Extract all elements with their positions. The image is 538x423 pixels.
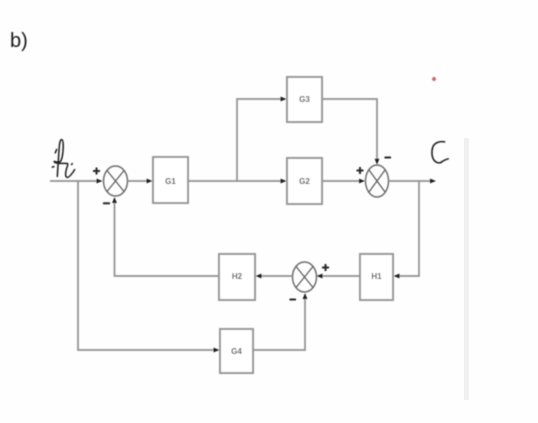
arrow into G2 [281,179,287,184]
wire: feedback takeoff down to H1 [397,181,419,276]
wire: G2 to S2 [322,180,362,182]
wire: takeoff from input down to G4 [78,181,217,350]
wire: G3 to S2 top [322,99,377,161]
arrow into H2 right side [256,274,262,279]
summing junction S3 [293,262,317,292]
wire: G1 to G2 with branch node [188,180,284,182]
handwritten output letter C [432,142,448,163]
svg-text:b): b) [10,30,28,52]
wire: G4 up to S3 bottom [253,296,305,350]
block H1 [360,254,393,300]
sign - at S3 bottom input [290,299,297,301]
arrow into S2 from top [375,159,380,165]
output arrowhead [430,179,436,184]
wire: H1 to S3 [320,275,360,277]
summing junction S2 [366,165,389,197]
sign - at S1 feedback [103,202,110,204]
sign + at S1 input [93,168,100,175]
sign + at S3 input [322,264,329,271]
arrow into S2 from left [359,179,365,184]
arrow into G4 [214,348,220,353]
block H2 [219,254,255,300]
svg-text:G3: G3 [299,95,310,104]
wire: branch up to G3 [237,99,281,181]
svg-text:G2: G2 [299,177,310,186]
svg-text:H2: H2 [232,272,243,281]
red dot mark [432,77,436,81]
arrow into H1 right side [394,274,400,279]
svg-text:G4: G4 [231,347,242,356]
arrow into S3 from below [303,293,308,299]
arrow into G3 [281,97,287,102]
handwritten input letter R [52,140,74,178]
block G2 [287,158,322,204]
arrow into G1 [147,179,153,184]
wire: S1 to G1 [128,180,151,182]
summing junction S1 [104,166,128,196]
wire: S3 to H2 [259,275,293,277]
block G1 [153,157,188,203]
block G4 [220,329,253,373]
wire: S2 to output C [389,180,432,182]
block G3 [287,77,322,122]
arrow into S3 from right [317,274,323,279]
svg-text:H1: H1 [371,272,382,281]
sign - at S2 top input [385,157,392,159]
svg-text:G1: G1 [165,177,176,186]
arrow into summing junction S1 [97,179,103,184]
sign + at S2 input [357,167,364,174]
arrow into S1 from below [112,197,117,203]
wire: H2 back up to S1 [115,200,220,276]
wire: input from R [50,180,99,182]
